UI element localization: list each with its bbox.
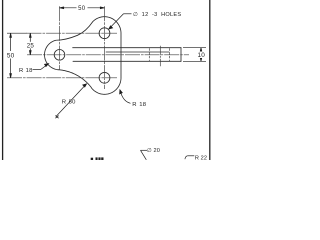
cut-off text marks at bottom: [91, 157, 104, 160]
arm top: [73, 47, 181, 49]
hole bottom-right: [99, 72, 110, 83]
svg-text:∅ 12 -3 HOLES: ∅ 12 -3 HOLES: [133, 11, 181, 18]
svg-text:50: 50: [69, 99, 76, 105]
border left: [2, 0, 4, 160]
svg-text:50: 50: [78, 6, 86, 12]
dim 25: [29, 33, 31, 55]
white gaps behind dimension text: [6, 5, 205, 59]
horizontal centerline through left hole / arm: [27, 54, 189, 56]
dim 50 left: [10, 33, 12, 78]
svg-text:R: R: [19, 68, 23, 74]
leader o20 bottom: [141, 149, 148, 151]
leader R18 bottom right: [120, 91, 130, 104]
svg-text:R: R: [62, 99, 66, 105]
vertical centerline left hole: [59, 6, 61, 70]
svg-text:∅: ∅: [147, 147, 152, 154]
svg-text:22: 22: [201, 155, 208, 160]
arm vertical centerline: [159, 46, 161, 66]
svg-text:20: 20: [154, 148, 161, 154]
arm inner step line: [106, 51, 169, 53]
vertical centerline right holes: [104, 6, 106, 89]
svg-text:50: 50: [7, 52, 15, 59]
arm bottom: [73, 60, 181, 62]
svg-text:R: R: [132, 102, 136, 108]
hole left: [54, 50, 65, 61]
svg-text:R: R: [195, 155, 199, 160]
svg-text:10: 10: [197, 52, 205, 59]
arm hidden line 2: [169, 48, 171, 61]
leader R50: [56, 84, 86, 116]
svg-text:18: 18: [139, 102, 146, 108]
horizontal centerline top hole: [27, 32, 118, 34]
arm hidden line 1: [148, 48, 150, 61]
outline plate: [45, 17, 122, 95]
border right: [209, 0, 211, 160]
leader R22 bottom right: [187, 155, 194, 157]
svg-text:25: 25: [27, 43, 35, 50]
horizontal centerline bottom hole: [7, 77, 117, 79]
leader R18 left: [33, 69, 41, 71]
hole top-right: [99, 28, 110, 39]
dim 10 arm: [183, 47, 206, 49]
leader o12 3 holes: [124, 13, 132, 15]
svg-text:18: 18: [26, 68, 33, 74]
centerlines: [7, 6, 189, 89]
dimension lines: [7, 7, 206, 160]
arm right end: [180, 48, 182, 62]
dim 50 top: [60, 7, 105, 9]
